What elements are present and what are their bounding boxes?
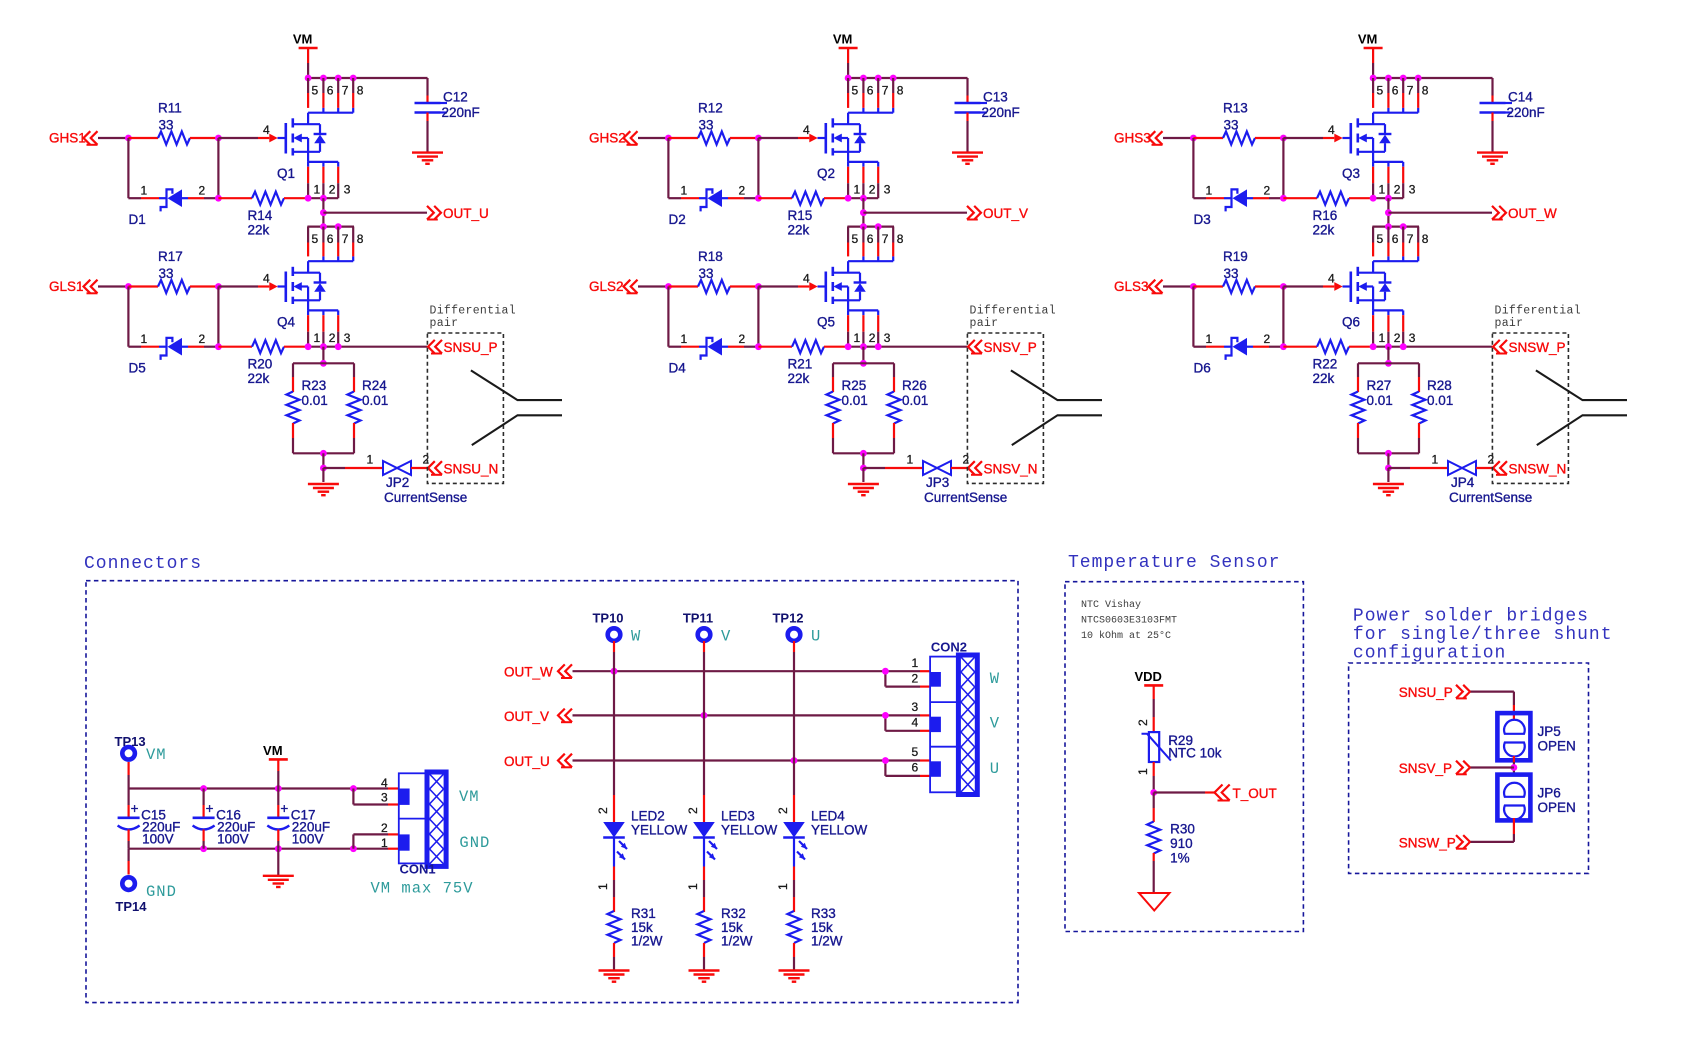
svg-text:R13: R13 — [1223, 101, 1248, 116]
diode D6 — [1193, 332, 1283, 376]
svg-text:SNSV_P: SNSV_P — [1399, 761, 1452, 776]
section box Temperature Sensor — [1065, 582, 1303, 932]
net SNSW_N — [1493, 461, 1566, 476]
pins 5 6 7 8 of Q6 — [1373, 227, 1429, 257]
svg-text:1: 1 — [907, 453, 914, 467]
svg-text:1: 1 — [1206, 332, 1213, 346]
svg-text:1: 1 — [314, 183, 321, 197]
svg-text:CON1: CON1 — [400, 862, 436, 877]
pins 5 6 7 8 of Q3 — [1373, 78, 1429, 108]
resistor R16 22k — [1283, 192, 1373, 238]
wire — [757, 138, 759, 198]
svg-text:7: 7 — [342, 232, 349, 246]
capacitor C17 220uF 100V — [267, 789, 330, 849]
wire pin3 — [352, 789, 354, 805]
svg-text:1/2W: 1/2W — [631, 934, 663, 949]
wire source Q3 — [1373, 197, 1403, 199]
svg-text:6: 6 — [1392, 84, 1399, 98]
svg-text:2: 2 — [1394, 183, 1401, 197]
svg-text:OUT_W: OUT_W — [504, 665, 553, 680]
svg-text:5: 5 — [1377, 232, 1384, 246]
svg-text:100V: 100V — [292, 832, 324, 847]
svg-text:2: 2 — [381, 821, 388, 835]
wire — [1282, 138, 1284, 198]
node — [320, 465, 327, 472]
svg-text:2: 2 — [686, 807, 700, 814]
svg-text:6: 6 — [327, 232, 334, 246]
svg-text:5: 5 — [912, 745, 919, 759]
wire VM rail — [1373, 78, 1492, 96]
svg-text:JP5: JP5 — [1538, 724, 1561, 739]
wire shunt top — [1358, 362, 1419, 364]
resistor R25 0.01 — [827, 363, 868, 453]
transistor Q2 — [803, 108, 893, 181]
pins 1 2 3 of Q5 — [848, 315, 891, 347]
resistor R18 33 — [668, 249, 758, 293]
svg-text:SNSW_N: SNSW_N — [1509, 462, 1567, 477]
LED LED4 YELLOW — [776, 807, 868, 890]
ground — [779, 969, 810, 971]
svg-text:8: 8 — [357, 84, 364, 98]
svg-text:220nF: 220nF — [442, 105, 480, 120]
svg-text:SNSW_P: SNSW_P — [1399, 835, 1456, 850]
svg-text:1: 1 — [141, 183, 148, 197]
svg-text:pair: pair — [970, 317, 999, 330]
svg-text:JP2: JP2 — [386, 475, 409, 490]
svg-text:R28: R28 — [1427, 378, 1452, 393]
svg-text:1: 1 — [776, 883, 790, 890]
svg-text:R31: R31 — [631, 906, 656, 921]
svg-text:YELLOW: YELLOW — [631, 823, 688, 838]
capacitor C16 220uF 100V — [193, 789, 256, 849]
svg-text:6: 6 — [912, 761, 919, 775]
pins 1 2 3 of Q4 — [308, 315, 351, 347]
wire — [613, 641, 615, 652]
svg-text:Temperature Sensor: Temperature Sensor — [1068, 553, 1280, 573]
ground — [599, 969, 630, 971]
svg-text:+: + — [131, 801, 139, 816]
svg-text:OPEN: OPEN — [1538, 800, 1576, 815]
svg-text:4: 4 — [381, 776, 388, 790]
svg-text:SNSV_P: SNSV_P — [984, 340, 1037, 355]
junctions — [882, 668, 889, 675]
node — [1280, 343, 1287, 350]
junction row Q3 — [1370, 75, 1422, 82]
wire — [1387, 453, 1389, 468]
net output T_OUT — [1154, 785, 1277, 802]
svg-text:Differential: Differential — [430, 305, 516, 318]
svg-text:22k: 22k — [788, 371, 810, 386]
diode D2 — [668, 183, 758, 227]
wire — [98, 137, 128, 139]
svg-text:6: 6 — [867, 84, 874, 98]
power flag VM (Q1) — [293, 32, 318, 79]
node — [320, 450, 327, 457]
wire gate Q3 — [1283, 137, 1323, 139]
svg-text:LED3: LED3 — [721, 809, 755, 824]
pins 5 6 7 8 of Q5 — [848, 227, 904, 257]
svg-text:R26: R26 — [902, 378, 927, 393]
svg-text:CurrentSense: CurrentSense — [1449, 490, 1532, 505]
svg-text:3: 3 — [344, 183, 351, 197]
differential pair callout — [427, 305, 516, 484]
wire — [322, 198, 324, 226]
svg-text:LED2: LED2 — [631, 809, 665, 824]
svg-text:TP12: TP12 — [772, 611, 803, 626]
wire shunt bottom — [1358, 452, 1419, 454]
wire VM rail — [848, 78, 967, 96]
svg-text:CurrentSense: CurrentSense — [384, 490, 467, 505]
svg-text:R11: R11 — [158, 101, 182, 116]
wire — [322, 453, 324, 468]
transistor Q3 — [1328, 108, 1418, 181]
node — [215, 343, 222, 350]
wire drain Q4 — [307, 226, 354, 228]
svg-text:8: 8 — [897, 84, 904, 98]
power flag VM (Q3) — [1358, 32, 1383, 79]
svg-text:VM: VM — [833, 32, 853, 47]
svg-text:R27: R27 — [1367, 378, 1392, 393]
svg-text:7: 7 — [882, 232, 889, 246]
svg-text:JP6: JP6 — [1538, 786, 1561, 801]
junctions — [882, 757, 889, 764]
svg-text:JP3: JP3 — [926, 475, 949, 490]
test point TP11 — [683, 611, 713, 641]
svg-text:0.01: 0.01 — [842, 393, 868, 408]
svg-text:2: 2 — [776, 807, 790, 814]
node — [860, 465, 867, 472]
resistor R27 0.01 — [1352, 363, 1393, 453]
wire — [667, 287, 669, 347]
svg-text:3: 3 — [381, 791, 388, 805]
svg-text:SNSU_P: SNSU_P — [444, 340, 498, 355]
wire shunt top — [293, 362, 354, 364]
capacitor C12 220nF — [415, 90, 480, 153]
svg-text:2: 2 — [423, 453, 430, 467]
wire pin4 — [388, 787, 399, 789]
node — [1190, 283, 1197, 290]
twisted pair symbol — [1011, 370, 1102, 445]
svg-text:22k: 22k — [788, 223, 810, 238]
resistor R32 15k 1/2W — [698, 906, 753, 970]
ground — [263, 849, 294, 887]
wire SNSU_P — [308, 346, 427, 348]
svg-text:R21: R21 — [788, 357, 813, 372]
resistor R21 22k — [758, 340, 848, 386]
svg-text:1: 1 — [912, 656, 919, 670]
wire branch — [884, 715, 886, 730]
svg-text:10 kOhm at 25°C: 10 kOhm at 25°C — [1081, 630, 1171, 642]
svg-text:7: 7 — [1407, 84, 1414, 98]
svg-text:15k: 15k — [631, 920, 653, 935]
resistor R11 33 — [128, 101, 218, 145]
node — [125, 283, 132, 290]
resistor R20 22k — [218, 340, 308, 386]
svg-text:2: 2 — [869, 331, 876, 345]
junction row Q2 — [845, 75, 897, 82]
svg-text:6: 6 — [1392, 232, 1399, 246]
wire — [98, 285, 128, 287]
svg-text:3: 3 — [1409, 183, 1416, 197]
net output OUT_V — [863, 206, 1028, 221]
svg-text:C13: C13 — [983, 90, 1008, 105]
svg-text:Q6: Q6 — [1342, 315, 1360, 330]
svg-text:8: 8 — [897, 232, 904, 246]
svg-text:GLS2: GLS2 — [589, 279, 624, 294]
wire — [322, 347, 324, 364]
net SNSU_P — [1399, 685, 1470, 700]
svg-text:OUT_V: OUT_V — [983, 206, 1028, 221]
svg-text:5: 5 — [852, 232, 859, 246]
section box solder bridges — [1349, 663, 1589, 873]
svg-text:3: 3 — [344, 331, 351, 345]
svg-text:2: 2 — [963, 453, 970, 467]
svg-text:pair: pair — [430, 317, 459, 330]
svg-text:OUT_U: OUT_U — [504, 754, 550, 769]
net input GHS1 — [49, 131, 98, 146]
junctions — [305, 343, 312, 350]
svg-text:GLS3: GLS3 — [1114, 279, 1149, 294]
resistor R30 910 1% — [1147, 793, 1195, 894]
junctions — [845, 195, 852, 202]
svg-text:R30: R30 — [1170, 822, 1195, 837]
svg-text:U: U — [811, 627, 821, 645]
junctions — [845, 343, 852, 350]
ground — [952, 153, 983, 164]
svg-text:22k: 22k — [1313, 371, 1335, 386]
node — [320, 209, 327, 216]
wire OUT_U — [573, 759, 921, 761]
svg-text:1: 1 — [314, 331, 321, 345]
svg-text:W: W — [631, 627, 641, 645]
transistor Q4 — [263, 256, 353, 329]
net SNSU_N — [428, 461, 498, 476]
svg-text:15k: 15k — [721, 920, 743, 935]
wire branch — [884, 671, 886, 686]
svg-text:NTC Vishay: NTC Vishay — [1081, 599, 1141, 611]
node — [215, 135, 222, 142]
svg-text:1: 1 — [854, 331, 861, 345]
svg-text:GHS1: GHS1 — [49, 131, 86, 146]
jumper JP3 CurrentSense — [863, 453, 1007, 505]
wire gate Q2 — [758, 137, 798, 139]
node — [1385, 209, 1392, 216]
svg-text:T_OUT: T_OUT — [1233, 786, 1277, 801]
node — [665, 135, 672, 142]
svg-text:8: 8 — [1422, 84, 1429, 98]
net input GLS2 — [589, 279, 638, 294]
wire — [703, 641, 705, 652]
diode D3 — [1193, 183, 1283, 227]
net SNSV_N — [968, 461, 1038, 476]
svg-text:C12: C12 — [443, 90, 468, 105]
svg-text:8: 8 — [1422, 232, 1429, 246]
wire — [217, 287, 219, 347]
wire — [757, 287, 759, 347]
net input GLS3 — [1114, 279, 1163, 294]
svg-text:100V: 100V — [217, 832, 249, 847]
svg-text:U: U — [990, 760, 1000, 778]
svg-text:+: + — [206, 801, 214, 816]
svg-text:JP4: JP4 — [1451, 475, 1475, 490]
node — [1511, 764, 1518, 771]
junctions — [320, 223, 327, 230]
wire drain Q6 — [1372, 226, 1419, 228]
wire — [862, 453, 864, 468]
svg-text:D6: D6 — [1194, 361, 1211, 376]
test point TP10 — [592, 611, 623, 641]
svg-text:220nF: 220nF — [1507, 105, 1545, 120]
node — [1280, 135, 1287, 142]
transistor Q6 — [1328, 256, 1418, 329]
svg-text:8: 8 — [357, 232, 364, 246]
svg-text:R32: R32 — [721, 906, 746, 921]
svg-text:2: 2 — [329, 183, 336, 197]
svg-text:R16: R16 — [1313, 208, 1338, 223]
svg-text:1: 1 — [854, 183, 861, 197]
svg-text:33: 33 — [159, 118, 174, 133]
svg-text:OPEN: OPEN — [1538, 738, 1576, 753]
svg-text:VM: VM — [146, 746, 167, 764]
test point TP14 — [115, 877, 177, 914]
svg-text:220nF: 220nF — [982, 105, 1020, 120]
twisted pair symbol — [471, 370, 562, 445]
svg-text:5: 5 — [1377, 84, 1384, 98]
test point TP13 — [115, 734, 167, 764]
wire branch — [884, 761, 886, 776]
svg-text:Q5: Q5 — [817, 315, 835, 330]
LED LED3 YELLOW — [686, 807, 778, 890]
svg-text:Differential: Differential — [1495, 305, 1581, 318]
wire — [667, 138, 669, 198]
wire VM rail — [129, 787, 388, 789]
resistor R33 15k 1/2W — [788, 906, 843, 970]
svg-text:D4: D4 — [669, 361, 687, 376]
junctions — [1370, 195, 1377, 202]
node — [1150, 789, 1157, 796]
svg-text:R25: R25 — [842, 378, 867, 393]
resistor R23 0.01 — [287, 363, 328, 453]
wire shunt bottom — [833, 452, 894, 454]
svg-text:GHS2: GHS2 — [589, 131, 626, 146]
wire — [127, 138, 129, 198]
svg-text:OUT_U: OUT_U — [443, 206, 489, 221]
svg-text:YELLOW: YELLOW — [811, 823, 868, 838]
net input OUT_U — [504, 754, 572, 769]
svg-text:33: 33 — [699, 266, 714, 281]
svg-text:1: 1 — [681, 183, 688, 197]
node — [755, 283, 762, 290]
svg-text:Connectors: Connectors — [84, 554, 202, 574]
svg-text:33: 33 — [159, 266, 174, 281]
svg-text:R33: R33 — [811, 906, 836, 921]
svg-text:22k: 22k — [248, 371, 270, 386]
svg-text:CurrentSense: CurrentSense — [924, 490, 1007, 505]
wire — [1163, 285, 1193, 287]
ground — [1477, 153, 1508, 164]
svg-text:YELLOW: YELLOW — [721, 823, 778, 838]
svg-text:2: 2 — [329, 331, 336, 345]
svg-text:R24: R24 — [362, 378, 387, 393]
svg-text:3: 3 — [884, 331, 891, 345]
svg-text:33: 33 — [1224, 266, 1239, 281]
wire — [638, 137, 668, 139]
svg-text:C14: C14 — [1508, 90, 1533, 105]
wire — [703, 715, 705, 795]
resistor R31 15k 1/2W — [608, 906, 663, 970]
wire OUT_V — [573, 714, 921, 716]
resistor R13 33 — [1193, 101, 1283, 145]
wire — [613, 671, 615, 795]
wire — [703, 867, 705, 881]
wire — [1192, 287, 1194, 347]
wire pin2 — [352, 834, 354, 848]
svg-text:Q3: Q3 — [1342, 166, 1360, 181]
capacitor C15 220uF 100V — [118, 789, 181, 849]
net output OUT_U — [323, 206, 488, 221]
ground — [308, 468, 339, 495]
wire pin1 — [388, 848, 399, 850]
svg-text:1: 1 — [381, 836, 388, 850]
wire — [1471, 841, 1514, 843]
svg-text:NTCS0603E3103FMT: NTCS0603E3103FMT — [1081, 616, 1177, 627]
svg-text:1/2W: 1/2W — [721, 934, 753, 949]
wire gate Q1 — [218, 137, 258, 139]
node — [1280, 283, 1287, 290]
node — [215, 283, 222, 290]
junctions — [200, 785, 207, 792]
svg-text:GHS3: GHS3 — [1114, 131, 1151, 146]
svg-text:100V: 100V — [142, 832, 174, 847]
pins 5 6 7 8 of Q2 — [848, 78, 904, 108]
svg-text:2: 2 — [912, 671, 919, 685]
node — [860, 450, 867, 457]
svg-text:2: 2 — [869, 183, 876, 197]
svg-text:1: 1 — [1136, 768, 1150, 775]
svg-text:3: 3 — [912, 700, 919, 714]
svg-text:2: 2 — [1264, 183, 1271, 197]
diode D5 — [128, 332, 218, 376]
svg-text:1: 1 — [596, 883, 610, 890]
svg-text:4: 4 — [1328, 123, 1335, 137]
svg-text:33: 33 — [1224, 118, 1239, 133]
resistor R17 33 — [128, 249, 218, 293]
wire SNSV_P — [848, 346, 967, 348]
svg-text:6: 6 — [327, 84, 334, 98]
node — [1385, 465, 1392, 472]
pins 1 2 3 of Q6 — [1373, 315, 1416, 347]
svg-text:0.01: 0.01 — [1427, 393, 1453, 408]
ground triangle — [1139, 893, 1170, 911]
svg-text:2: 2 — [1394, 331, 1401, 345]
svg-text:V: V — [721, 627, 731, 645]
svg-text:GND: GND — [146, 883, 177, 901]
pins 1 2 3 of Q3 — [1373, 167, 1416, 199]
transistor Q5 — [803, 256, 893, 329]
node — [1280, 195, 1287, 202]
svg-text:0.01: 0.01 — [1367, 393, 1393, 408]
junctions — [882, 712, 889, 719]
svg-text:2: 2 — [1488, 453, 1495, 467]
svg-text:1: 1 — [686, 883, 700, 890]
svg-text:LED4: LED4 — [811, 809, 845, 824]
net input OUT_W — [504, 664, 572, 679]
svg-text:1%: 1% — [1170, 850, 1190, 865]
svg-text:33: 33 — [699, 118, 714, 133]
wire — [1192, 138, 1194, 198]
svg-text:OUT_W: OUT_W — [1508, 206, 1557, 221]
resistor R19 33 — [1193, 249, 1283, 293]
